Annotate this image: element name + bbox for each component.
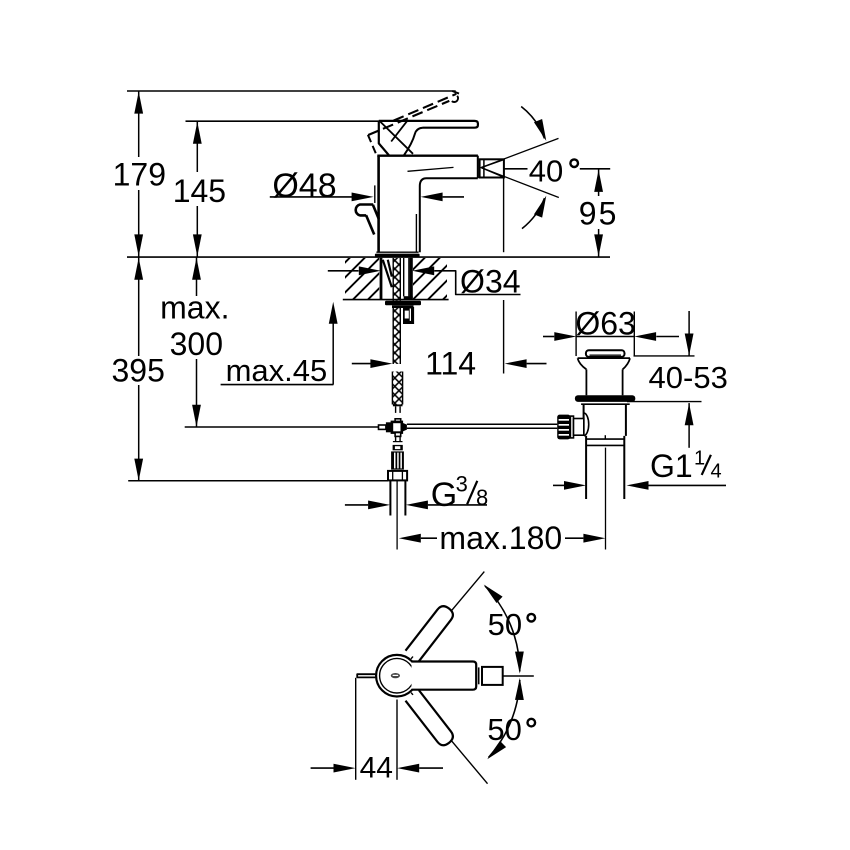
svg-text:G: G <box>431 476 457 514</box>
aerator square <box>480 159 504 177</box>
spout reflection line <box>408 167 454 171</box>
extension line spout tip upper <box>503 178 505 252</box>
deck hatch left block <box>345 258 379 299</box>
dimension line G114 right tail <box>649 484 727 486</box>
svg-text:300: 300 <box>170 326 223 362</box>
shank tube right line <box>408 258 410 296</box>
tee fitting left sleeve <box>379 425 386 429</box>
extension line Ø63 right <box>633 312 635 357</box>
mounting washer <box>385 301 421 306</box>
raised handle tip arc <box>452 96 458 102</box>
label G1 slash <box>702 455 711 475</box>
pop-up rod arm outer <box>373 205 379 219</box>
top view 50deg line lower <box>411 693 487 784</box>
svg-text:44: 44 <box>360 751 393 784</box>
dimension line max180 left tail <box>421 537 437 539</box>
dimension line 95 <box>598 169 600 256</box>
svg-text:G1: G1 <box>650 448 693 484</box>
degree sign 50 upper <box>528 614 536 622</box>
halo 95 <box>577 196 622 229</box>
hose end band <box>393 404 403 406</box>
spray angle lower arc <box>522 198 545 229</box>
arrow 40-53 top <box>685 334 694 356</box>
hose lower tube <box>395 406 397 413</box>
dimension line 179 <box>138 91 140 257</box>
tee fitting right nozzle <box>402 423 407 432</box>
angle arc lower <box>489 680 520 758</box>
connector knurled section <box>391 451 404 469</box>
arrow spray arc lower <box>534 194 550 218</box>
drain plug cap <box>586 350 625 357</box>
top view logo mark <box>391 673 400 678</box>
drain stem block <box>574 419 584 436</box>
spout bottom edge with corner <box>420 178 478 252</box>
reference line hose level (max.300 bottom) <box>185 426 379 428</box>
connector hex nut <box>388 471 407 481</box>
drain pipe right <box>623 436 625 499</box>
halo 179 <box>111 157 167 190</box>
top view handle lever <box>412 662 477 690</box>
arrow arc lower bottom <box>484 741 506 763</box>
drain body left side <box>583 404 585 436</box>
halo 145 <box>171 172 228 206</box>
svg-text:Ø63: Ø63 <box>575 306 635 342</box>
arrow spray arc upper <box>534 119 550 143</box>
dimension line 145 <box>196 121 198 256</box>
top view body inner ring <box>380 658 415 693</box>
dimension line 114 left <box>352 363 371 365</box>
handle rotated down 50deg <box>406 690 456 748</box>
drain funnel top edge <box>578 357 630 359</box>
shank tube left line <box>403 258 405 296</box>
drain body center tick <box>604 435 606 439</box>
dimension line 44 right tail <box>419 767 443 769</box>
svg-text:Ø34: Ø34 <box>460 264 520 300</box>
pop-up rod in hole inner <box>388 260 392 277</box>
halo max300 <box>158 296 231 359</box>
svg-text:40: 40 <box>529 153 563 188</box>
drain pipe centerline <box>605 448 607 550</box>
dimension line Ø48 left <box>270 196 352 198</box>
extension line spout tip lower <box>503 300 505 374</box>
hose side block <box>403 307 414 324</box>
extension line 40-53 top <box>634 355 695 357</box>
arrow Ø34 left <box>359 266 381 275</box>
svg-text:3: 3 <box>456 472 468 497</box>
dimension line 40-53 lower <box>688 403 690 448</box>
arrow arc upper top <box>481 581 503 603</box>
drain shoulder line <box>581 403 630 405</box>
aerator cone triangle <box>481 160 504 178</box>
arrow Ø48 right <box>421 193 443 202</box>
tube end band <box>393 441 403 442</box>
drain knob <box>557 415 570 440</box>
mounting nut <box>392 305 414 308</box>
flex hose braided section <box>392 372 402 405</box>
arrow Ø48 left <box>352 193 374 202</box>
svg-text:50: 50 <box>487 712 521 747</box>
arrow Ø63 left <box>554 332 576 341</box>
pop-up rod in hole outer <box>383 260 392 287</box>
dimension line 114 right tail <box>527 363 547 365</box>
svg-text:95: 95 <box>579 196 619 232</box>
deck hatch right block <box>413 258 447 299</box>
arrow 95 bottom <box>594 234 603 256</box>
extension line top (max height ref) <box>127 90 456 92</box>
dimension line max.300 <box>196 257 198 427</box>
svg-text:179: 179 <box>113 157 166 193</box>
arrow 145 top <box>193 122 202 144</box>
svg-text:4: 4 <box>711 460 722 482</box>
arrow arc upper bottom <box>515 652 524 674</box>
faucet body top edge <box>377 154 478 156</box>
spray cone lower line <box>481 168 559 198</box>
arrow Ø63 right <box>634 332 656 341</box>
arrow G38 right <box>406 501 428 510</box>
arrow G38 left <box>368 501 390 510</box>
base lip line <box>376 251 418 253</box>
label line 40deg left <box>505 168 528 170</box>
top view hook tab <box>357 674 375 677</box>
drain flange <box>575 395 635 402</box>
dimension line 40-53 upper <box>688 311 690 356</box>
dimension line Ø48 right tail <box>443 196 464 198</box>
pop-up rod arm inner <box>366 215 374 234</box>
arrow 114 left <box>370 359 392 368</box>
arrow max45 <box>329 302 338 324</box>
drain neck right <box>622 369 624 395</box>
arrow max180 right <box>583 534 605 543</box>
raised cap dashed left edge <box>368 135 377 155</box>
svg-text:Ø48: Ø48 <box>272 167 336 205</box>
threaded rod upper (in hole) <box>393 258 400 301</box>
mounting hole right wall <box>410 258 413 300</box>
arrow 95 top <box>594 170 603 192</box>
drain knob washer <box>570 416 573 438</box>
drain ball arc <box>584 413 589 436</box>
tube below tee <box>395 436 397 441</box>
top view body outer ring <box>376 655 418 697</box>
threaded rod mid <box>393 308 400 364</box>
arrow max300 top <box>192 258 201 280</box>
mounting hole left wall <box>380 258 383 300</box>
top view centerline right <box>503 675 534 677</box>
arrow 44 right <box>397 764 419 773</box>
arrow 145 bottom <box>193 234 202 256</box>
faucet body left edge <box>377 156 380 252</box>
arrow G114 right <box>627 481 649 490</box>
svg-text:145: 145 <box>173 173 226 209</box>
arrow G114 left <box>564 481 586 490</box>
drain neck left <box>585 369 587 395</box>
extension line 40-53 bottom <box>627 401 702 403</box>
svg-text:114: 114 <box>425 346 476 382</box>
degree sign 50 lower <box>528 719 536 727</box>
drain body right side <box>625 404 627 436</box>
deck bottom line <box>343 299 449 301</box>
svg-text:1: 1 <box>694 447 705 469</box>
drain funnel right side <box>623 358 630 369</box>
max.45 leader line <box>332 323 334 385</box>
hose side block window <box>405 311 409 319</box>
angle arc upper <box>485 586 520 671</box>
countertop deck top line <box>127 256 610 258</box>
dimension Ø34 leader <box>434 271 520 295</box>
tee fitting left collar <box>386 422 393 432</box>
arrow max300 bottom <box>192 405 201 427</box>
raised handle tip dash <box>452 91 459 94</box>
degree sign 40 <box>570 159 578 167</box>
dimension line Ø63 <box>543 336 554 338</box>
arrow Ø34 right <box>412 266 434 275</box>
arrow 44 left <box>334 764 356 773</box>
raised handle dashed top <box>394 94 457 121</box>
dimension line max180 right tail <box>565 537 583 539</box>
hose side block slit <box>410 309 411 321</box>
handle cap left edge <box>379 121 389 156</box>
dimension line G38 left <box>345 504 368 506</box>
pop-up actuator rod <box>407 423 557 425</box>
lever underside to cap corner <box>404 128 423 156</box>
tee fitting bottom stub <box>395 433 401 437</box>
tee fitting body <box>392 422 402 433</box>
arrow arc lower top <box>515 678 524 700</box>
fitting top stub <box>395 419 401 422</box>
arrow 179 top <box>134 92 143 114</box>
extension line base left <box>374 185 376 203</box>
drain pipe left <box>585 436 587 499</box>
arrow 179 bottom <box>134 234 143 256</box>
base escutcheon plate <box>375 254 420 257</box>
extension line 44 left <box>355 678 357 780</box>
cap fold line A <box>380 122 413 154</box>
top view aerator square <box>482 667 503 685</box>
svg-text:395: 395 <box>112 352 165 388</box>
connector upper piece <box>393 445 403 450</box>
svg-text:8: 8 <box>476 485 488 510</box>
dimension line G38 right tail <box>428 504 487 506</box>
supply tail inner line / centerline ext <box>396 480 398 549</box>
supply tail tube <box>389 480 391 515</box>
spout right edge <box>477 156 479 178</box>
halo 395 <box>109 356 167 385</box>
arrow max180 left <box>399 534 421 543</box>
svg-text:max.180: max.180 <box>439 520 562 556</box>
aerator inner line <box>483 159 485 177</box>
dimension line Ø34 left <box>328 270 359 272</box>
label line 40deg right <box>580 168 610 170</box>
svg-text:max.: max. <box>160 290 229 326</box>
spray cone upper line <box>481 138 558 167</box>
top view 50deg line upper <box>411 572 484 659</box>
dimension line G114 left <box>553 484 564 486</box>
reference line supply end (395 bottom) <box>128 480 388 482</box>
svg-text:40-53: 40-53 <box>649 360 728 395</box>
top view joint lines <box>478 667 480 684</box>
label G slash <box>467 481 477 505</box>
cap fold line B <box>391 121 407 141</box>
arrow 395 top <box>134 258 143 280</box>
arrow 395 bottom <box>134 459 143 481</box>
spray angle upper arc <box>521 107 544 139</box>
dimension line 44 left tail <box>311 767 334 769</box>
drain funnel left side <box>578 358 587 369</box>
extension line lever height ref <box>186 120 380 122</box>
spout inner corner line <box>415 214 417 252</box>
handle lever <box>379 121 478 128</box>
arrow 114 right <box>505 359 527 368</box>
svg-text:50: 50 <box>488 607 522 642</box>
max.45 underline <box>221 384 334 386</box>
extension line 44 right <box>396 700 398 780</box>
shank tube end block <box>404 296 413 299</box>
raised handle dashed bottom <box>368 101 449 135</box>
handle rotated up 50deg <box>406 603 456 661</box>
arrow 40-53 bottom <box>685 403 694 425</box>
extension line Ø63 left <box>575 312 577 357</box>
svg-text:max.45: max.45 <box>226 353 328 388</box>
dimension line 395 <box>138 257 140 481</box>
pop-up rod knob (hook) <box>356 205 374 216</box>
drain joint band <box>586 438 624 440</box>
